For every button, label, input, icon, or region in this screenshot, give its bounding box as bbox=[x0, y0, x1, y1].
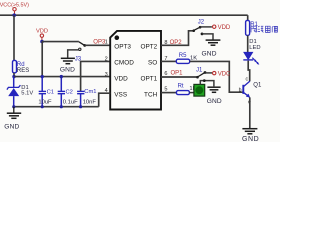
wire left column drop bbox=[13, 15, 15, 60]
svg-text:6: 6 bbox=[164, 71, 167, 77]
wire VDD vertical drop bbox=[41, 42, 43, 77]
wire Rt to touch pad bbox=[189, 92, 194, 94]
power port VCC bbox=[0, 3, 29, 15]
transistor Q1 bbox=[239, 76, 262, 105]
svg-text:VDD: VDD bbox=[218, 25, 231, 31]
svg-text:5.1V: 5.1V bbox=[21, 91, 33, 97]
svg-text:GND: GND bbox=[207, 98, 222, 105]
svg-text:3: 3 bbox=[105, 72, 108, 78]
ground G1 bottom-left bbox=[7, 107, 21, 119]
svg-text:10nF: 10nF bbox=[83, 100, 97, 106]
op-amp/IC U1 body bbox=[110, 31, 161, 110]
svg-text:GND: GND bbox=[60, 67, 75, 74]
svg-text:J3: J3 bbox=[75, 57, 82, 63]
wire J1 to VDC port bbox=[205, 72, 212, 74]
ground G5 bbox=[242, 129, 257, 134]
svg-text:TCH: TCH bbox=[144, 92, 158, 99]
power port VDD right bbox=[213, 25, 231, 31]
capacitor C1 bbox=[39, 77, 46, 107]
node Cm1 GND junction bbox=[79, 105, 82, 108]
node GND bus left junction bbox=[12, 105, 15, 108]
wire VDD to switch J3 bbox=[42, 41, 79, 43]
svg-text:VSS: VSS bbox=[114, 92, 127, 99]
node C1 GND junction bbox=[41, 105, 44, 108]
switch J2 bbox=[192, 20, 204, 32]
svg-text:b: b bbox=[239, 88, 242, 94]
svg-text:GND: GND bbox=[4, 123, 19, 130]
node VDD bus C1 junction bbox=[41, 75, 44, 78]
LED D1 bbox=[243, 39, 260, 65]
wire VDD bus (pin3 net) bbox=[14, 76, 110, 78]
resistor Rd bbox=[13, 60, 30, 73]
label 限流电阻 (current-limit resistor) bbox=[251, 26, 277, 32]
svg-text:Cm1: Cm1 bbox=[84, 89, 96, 95]
wire R5 to Q1 base bbox=[190, 61, 243, 92]
wire pin5 TCH to Rt bbox=[161, 92, 176, 94]
svg-text:R5: R5 bbox=[179, 53, 187, 59]
wire pin6 OPT1 to switch J1 bbox=[161, 76, 197, 78]
wire pin4 VSS to ground bus bbox=[99, 93, 111, 107]
svg-text:OPT3: OPT3 bbox=[114, 43, 131, 50]
node VDD port junction bbox=[40, 40, 44, 44]
svg-text:VDC: VDC bbox=[218, 72, 231, 78]
node VCC junction bbox=[12, 13, 16, 17]
node C2 VDD junction bbox=[60, 75, 63, 78]
svg-text:0.1uF: 0.1uF bbox=[63, 100, 78, 106]
svg-text:SO: SO bbox=[148, 59, 157, 66]
svg-text:C2: C2 bbox=[66, 89, 73, 95]
wire pin7 SO to R5 bbox=[161, 60, 176, 62]
svg-text:Q1: Q1 bbox=[253, 82, 262, 88]
svg-text:OPT1: OPT1 bbox=[140, 76, 157, 83]
svg-text:C1: C1 bbox=[47, 89, 54, 95]
ground G3 bbox=[206, 40, 221, 45]
wire R1 to LED bbox=[247, 35, 249, 52]
node VDD-net left junction bbox=[12, 75, 15, 78]
wire pin1 OPT3 bbox=[85, 44, 111, 46]
svg-text:5: 5 bbox=[164, 86, 167, 92]
ground G4 bbox=[207, 87, 220, 92]
svg-text:2: 2 bbox=[105, 56, 108, 62]
resistor R5 bbox=[176, 53, 197, 63]
svg-text:GND: GND bbox=[242, 136, 259, 142]
wire Q1 emitter to ground bbox=[249, 97, 251, 128]
pin1 marker dot bbox=[115, 35, 120, 40]
svg-text:10uF: 10uF bbox=[38, 100, 52, 106]
svg-text:R1: R1 bbox=[250, 22, 258, 28]
wire LED to Q1 collector bbox=[248, 61, 250, 82]
wire J2 lower throw to ground bbox=[202, 34, 213, 40]
svg-text:LED: LED bbox=[249, 45, 260, 51]
svg-text:VDD: VDD bbox=[114, 76, 128, 83]
wire Rd bottom lead bbox=[13, 73, 15, 77]
node J2 lower throw bbox=[201, 33, 204, 36]
capacitor Cm1 bbox=[77, 91, 84, 106]
svg-text:1: 1 bbox=[105, 39, 108, 45]
switch J1 bbox=[196, 67, 206, 78]
touch pad electrode bbox=[194, 84, 205, 96]
wire VCC rail to R1 bbox=[247, 15, 249, 20]
ground G2 switch bbox=[61, 58, 75, 63]
wire pin2 CMOD net bbox=[81, 61, 111, 91]
svg-text:J2: J2 bbox=[198, 20, 205, 26]
svg-text:GND: GND bbox=[202, 51, 217, 58]
svg-text:Rt: Rt bbox=[178, 84, 184, 90]
svg-text:RES: RES bbox=[17, 68, 29, 74]
capacitor C2 bbox=[58, 77, 65, 107]
node J1 lower throw bbox=[203, 79, 206, 82]
svg-text:J1: J1 bbox=[196, 67, 203, 73]
svg-text:c: c bbox=[246, 76, 249, 82]
wire top VCC rail bbox=[0, 14, 248, 16]
wire bottom GND bus bbox=[14, 106, 99, 108]
svg-text:OPT2: OPT2 bbox=[140, 43, 157, 50]
svg-text:OP2: OP2 bbox=[170, 40, 183, 46]
resistor Rt bbox=[176, 84, 196, 95]
resistor R1 bbox=[246, 20, 259, 35]
svg-text:OP1: OP1 bbox=[171, 71, 184, 77]
wire J2 to VDD port bbox=[201, 26, 212, 28]
wire pad top to ground bbox=[200, 81, 214, 87]
switch J3 bbox=[75, 42, 86, 63]
wire J3 lower throw to ground bbox=[68, 50, 79, 58]
wire pin8 OPT2 to switch J2 bbox=[161, 31, 193, 46]
power port VDC bbox=[213, 71, 232, 77]
power port VDD top-left bbox=[36, 29, 48, 41]
svg-text:CMOD: CMOD bbox=[114, 59, 134, 66]
node C2 GND junction bbox=[60, 105, 63, 108]
zener diode D1 bbox=[7, 77, 33, 107]
